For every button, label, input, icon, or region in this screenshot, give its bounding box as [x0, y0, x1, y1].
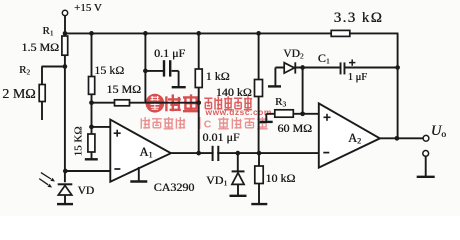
svg-text:www.dzsc.com: www.dzsc.com — [205, 107, 272, 117]
svg-text:C: C — [204, 119, 212, 131]
